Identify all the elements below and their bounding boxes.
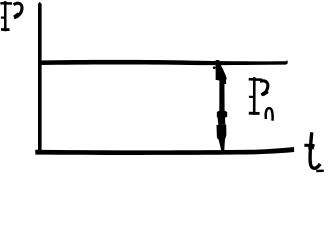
arrowhead down [217, 125, 227, 151]
P axis (vertical y-axis) [38, 2, 42, 152]
ink dot left of up arrowhead [213, 66, 216, 69]
label P0 (arrow value) [250, 78, 273, 119]
double arrow shaft [217, 78, 227, 126]
constant pressure line P0 [38, 60, 288, 68]
label t (x-axis) [306, 134, 323, 171]
t axis (horizontal x-axis) [35, 147, 294, 155]
arrowhead up [216, 60, 227, 84]
label P (y-axis) [2, 2, 22, 30]
